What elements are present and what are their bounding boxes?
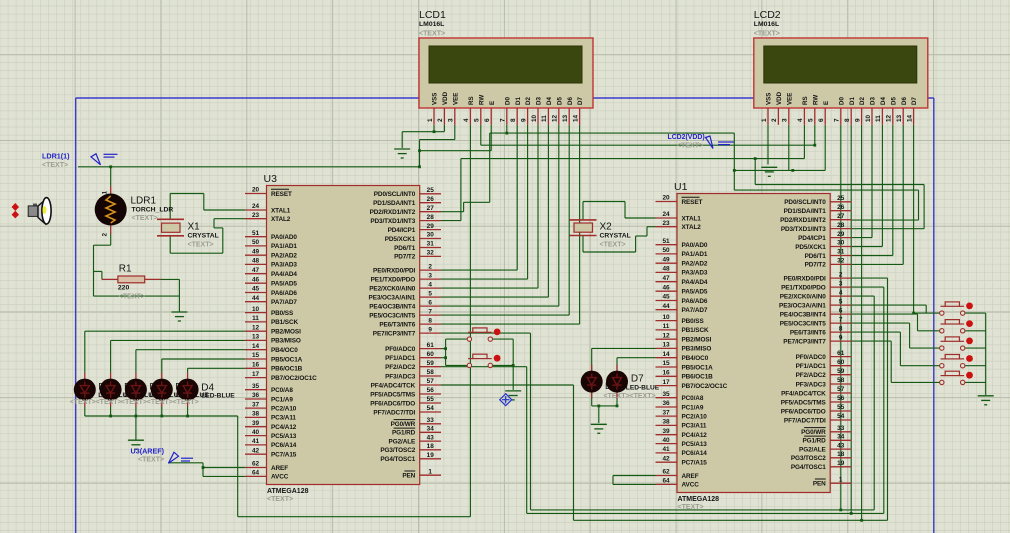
svg-text:PA2/AD2: PA2/AD2 bbox=[271, 253, 297, 260]
ground below LCD1 bbox=[394, 149, 410, 158]
svg-text:PC5/A13: PC5/A13 bbox=[682, 441, 708, 448]
svg-text:PC7/A15: PC7/A15 bbox=[271, 452, 297, 459]
svg-text:PE4/OC3B/INT4: PE4/OC3B/INT4 bbox=[780, 311, 826, 318]
LCD1 pin stubs bbox=[434, 108, 580, 125]
svg-text:35: 35 bbox=[662, 391, 670, 398]
svg-text:AVCC: AVCC bbox=[682, 482, 700, 489]
svg-text:42: 42 bbox=[252, 447, 260, 454]
svg-text:14: 14 bbox=[662, 351, 670, 358]
svg-text:RS: RS bbox=[802, 96, 809, 105]
svg-text:PF2/ADC2: PF2/ADC2 bbox=[385, 364, 416, 371]
svg-text:PE2/XCK0/AIN0: PE2/XCK0/AIN0 bbox=[369, 285, 415, 292]
svg-text:PD6/T1: PD6/T1 bbox=[805, 253, 827, 260]
svg-text:ATMEGA128: ATMEGA128 bbox=[267, 488, 309, 495]
svg-text:VSS: VSS bbox=[432, 93, 439, 105]
U1 left pin names bbox=[682, 197, 728, 488]
svg-text:31: 31 bbox=[837, 249, 845, 256]
svg-text:<TEXT>: <TEXT> bbox=[119, 294, 145, 301]
svg-text:11: 11 bbox=[663, 323, 670, 330]
svg-text:1: 1 bbox=[839, 476, 843, 483]
svg-text:30: 30 bbox=[427, 232, 435, 239]
svg-text:27: 27 bbox=[837, 213, 845, 220]
svg-text:28: 28 bbox=[427, 214, 435, 221]
wire: X1 to U3 XTAL2 bbox=[214, 218, 245, 220]
svg-text:15: 15 bbox=[252, 352, 260, 359]
svg-text:TORCH_LDR: TORCH_LDR bbox=[132, 207, 174, 214]
wire: LED cathode bus bbox=[84, 406, 86, 416]
wire: U1 AREF AVCC stubs bbox=[613, 475, 656, 477]
U1 left pin numbers bbox=[662, 195, 670, 485]
svg-text:PC1/A9: PC1/A9 bbox=[682, 404, 704, 411]
svg-text:PG0/WR: PG0/WR bbox=[801, 429, 826, 436]
svg-text:54: 54 bbox=[427, 405, 435, 412]
wire: U3 PB4 to LED D2 anode bbox=[135, 350, 137, 373]
svg-text:61: 61 bbox=[427, 342, 435, 349]
svg-text:U1: U1 bbox=[674, 181, 688, 193]
wire: LCD2 D7 to button1 node bbox=[913, 125, 915, 313]
svg-text:PD3/TXD1/INT3: PD3/TXD1/INT3 bbox=[370, 218, 415, 225]
svg-text:56: 56 bbox=[427, 387, 435, 394]
wire: LCD2 VSS to ground bbox=[767, 125, 769, 165]
svg-text:<TEXT>: <TEXT> bbox=[121, 399, 147, 406]
svg-text:PE1/TXD0/PDO: PE1/TXD0/PDO bbox=[781, 284, 826, 291]
svg-text:LM016L: LM016L bbox=[419, 21, 444, 28]
svg-text:PC1/A9: PC1/A9 bbox=[271, 396, 293, 403]
svg-text:13: 13 bbox=[662, 342, 670, 349]
svg-text:36: 36 bbox=[252, 392, 260, 399]
svg-text:VEE: VEE bbox=[452, 93, 459, 105]
crystal X2 bbox=[570, 220, 597, 236]
svg-text:PA0/AD0: PA0/AD0 bbox=[271, 234, 297, 241]
svg-text:25: 25 bbox=[837, 195, 845, 202]
svg-text:40: 40 bbox=[252, 429, 260, 436]
svg-text:D5: D5 bbox=[556, 97, 563, 105]
svg-text:D3: D3 bbox=[536, 97, 543, 105]
svg-text:55: 55 bbox=[837, 404, 845, 411]
svg-text:64: 64 bbox=[252, 470, 260, 477]
svg-text:6: 6 bbox=[484, 118, 491, 122]
wire: cross bus U3 PF4 to U1 PE0 bbox=[441, 384, 574, 386]
svg-text:220: 220 bbox=[118, 285, 130, 292]
svg-text:PA6/AD6: PA6/AD6 bbox=[682, 298, 708, 305]
wire: LCD1 RW to LCD2 RW long net bbox=[480, 125, 482, 145]
push button SW4 bbox=[940, 320, 973, 333]
svg-text:<TEXT>: <TEXT> bbox=[147, 399, 173, 406]
svg-text:64: 64 bbox=[662, 478, 670, 485]
svg-text:<TEXT>: <TEXT> bbox=[678, 504, 704, 511]
svg-text:PC0/A8: PC0/A8 bbox=[682, 395, 704, 402]
svg-text:40: 40 bbox=[662, 437, 670, 444]
svg-text:PE6/T3/INT6: PE6/T3/INT6 bbox=[790, 329, 826, 336]
svg-text:CRYSTAL: CRYSTAL bbox=[188, 233, 219, 240]
svg-text:41: 41 bbox=[252, 438, 260, 445]
svg-text:PG0/WR: PG0/WR bbox=[391, 421, 416, 428]
svg-text:7: 7 bbox=[428, 308, 432, 315]
svg-text:PF1/ADC1: PF1/ADC1 bbox=[796, 363, 827, 370]
wire: X2 to U1 XTAL1 bbox=[625, 217, 656, 219]
svg-text:23: 23 bbox=[252, 212, 260, 219]
svg-text:41: 41 bbox=[662, 446, 670, 453]
svg-text:PB5/OC1A: PB5/OC1A bbox=[271, 356, 303, 363]
svg-text:PB5/OC1A: PB5/OC1A bbox=[682, 364, 714, 371]
push button SW3 bbox=[940, 302, 973, 315]
svg-text:4: 4 bbox=[428, 281, 432, 288]
svg-text:37: 37 bbox=[662, 409, 670, 416]
svg-text:2: 2 bbox=[839, 271, 843, 278]
svg-text:12: 12 bbox=[552, 114, 559, 122]
svg-text:PG1/RD: PG1/RD bbox=[802, 438, 826, 445]
svg-text:29: 29 bbox=[427, 223, 435, 230]
svg-text:VDD: VDD bbox=[776, 91, 783, 105]
svg-text:PB7/OC2/OC1C: PB7/OC2/OC1C bbox=[682, 383, 728, 390]
svg-text:3: 3 bbox=[839, 280, 843, 287]
svg-text:D7: D7 bbox=[631, 374, 644, 385]
svg-text:10: 10 bbox=[662, 314, 670, 321]
svg-text:18: 18 bbox=[427, 443, 435, 450]
svg-text:9: 9 bbox=[428, 326, 432, 333]
svg-text:PF4/ADC4/TCK: PF4/ADC4/TCK bbox=[781, 390, 826, 397]
svg-text:PE3/OC3A/AIN1: PE3/OC3A/AIN1 bbox=[779, 302, 826, 309]
U1 left pin stubs bbox=[656, 202, 852, 485]
svg-text:36: 36 bbox=[662, 400, 670, 407]
svg-text:U3(AREF): U3(AREF) bbox=[131, 447, 165, 456]
LCD display LCD2 LM016L body bbox=[754, 38, 928, 108]
svg-text:23: 23 bbox=[662, 220, 670, 227]
wire: U3 PF0/PF1 to middle buttons bbox=[441, 348, 446, 350]
wire: LCD2 D2 to bottom bus bbox=[861, 125, 863, 520]
svg-text:RS: RS bbox=[468, 96, 475, 105]
ground for left LED bus bbox=[128, 440, 144, 449]
svg-text:PE1/TXD0/PDO: PE1/TXD0/PDO bbox=[371, 276, 416, 283]
svg-text:PA1/AD1: PA1/AD1 bbox=[682, 251, 708, 258]
svg-text:13: 13 bbox=[252, 334, 260, 341]
wire: cross bus U3 PE7 to U1 PE2 bbox=[441, 332, 531, 334]
svg-text:4: 4 bbox=[797, 118, 804, 122]
svg-text:PB6/OC1B: PB6/OC1B bbox=[271, 366, 303, 373]
svg-text:E: E bbox=[823, 101, 830, 105]
svg-text:RESET: RESET bbox=[271, 191, 292, 198]
svg-text:4: 4 bbox=[839, 289, 843, 296]
svg-text:<TEXT>: <TEXT> bbox=[42, 162, 68, 169]
svg-text:59: 59 bbox=[427, 360, 435, 367]
svg-text:PA3/AD3: PA3/AD3 bbox=[271, 262, 297, 269]
svg-text:<TEXT>: <TEXT> bbox=[138, 457, 164, 464]
svg-text:29: 29 bbox=[837, 231, 845, 238]
svg-text:59: 59 bbox=[837, 368, 845, 375]
wire: LED bus stem to ground bbox=[135, 416, 137, 440]
LCD2 pin stubs bbox=[768, 108, 914, 125]
svg-text:XTAL2: XTAL2 bbox=[271, 216, 291, 223]
svg-text:PB3/MISO: PB3/MISO bbox=[682, 346, 712, 353]
svg-text:PB2/MOSI: PB2/MOSI bbox=[271, 329, 301, 336]
red marker dot 1 bbox=[12, 203, 19, 211]
svg-text:46: 46 bbox=[252, 276, 260, 283]
svg-text:PC3/A11: PC3/A11 bbox=[682, 423, 707, 430]
svg-text:3: 3 bbox=[782, 118, 789, 122]
svg-text:25: 25 bbox=[427, 187, 435, 194]
U3 left pin stubs bbox=[245, 194, 441, 477]
svg-text:55: 55 bbox=[427, 396, 435, 403]
wire: LCD2 VEE tap bbox=[788, 125, 790, 170]
svg-text:24: 24 bbox=[252, 203, 260, 210]
left LED row partial labels bbox=[98, 382, 209, 400]
svg-text:<TEXT>: <TEXT> bbox=[419, 31, 445, 38]
svg-text:PC6/A14: PC6/A14 bbox=[682, 450, 708, 457]
svg-text:10: 10 bbox=[865, 114, 872, 122]
push button SW1 bbox=[467, 328, 500, 341]
svg-text:44: 44 bbox=[662, 303, 670, 310]
svg-text:PE7/ICP3/INT7: PE7/ICP3/INT7 bbox=[373, 330, 416, 337]
svg-text:PE5/OC3C/INT5: PE5/OC3C/INT5 bbox=[369, 312, 415, 319]
svg-text:1: 1 bbox=[427, 118, 434, 122]
wire: U3 AREF/AVCC probe node bbox=[168, 462, 203, 464]
svg-text:PB3/MISO: PB3/MISO bbox=[271, 338, 301, 345]
svg-text:LED-BLUE: LED-BLUE bbox=[201, 393, 235, 400]
wire: U3 PD3 to U1 PD3 link bbox=[441, 220, 461, 222]
svg-text:<TEXT>: <TEXT> bbox=[70, 399, 96, 406]
svg-text:54: 54 bbox=[837, 413, 845, 420]
svg-text:20: 20 bbox=[252, 187, 260, 194]
svg-text:27: 27 bbox=[427, 205, 435, 212]
svg-text:38: 38 bbox=[662, 419, 670, 426]
svg-text:33: 33 bbox=[837, 425, 845, 432]
svg-text:XTAL1: XTAL1 bbox=[271, 207, 291, 214]
svg-text:34: 34 bbox=[427, 426, 435, 433]
svg-text:PB0/SS: PB0/SS bbox=[682, 318, 705, 325]
svg-text:PD4/ICP1: PD4/ICP1 bbox=[798, 235, 826, 242]
resistor R1 220 bbox=[102, 276, 161, 283]
wire: X2 to U1 XTAL2 bbox=[647, 226, 656, 228]
svg-text:11: 11 bbox=[541, 115, 548, 122]
svg-text:PA4/AD4: PA4/AD4 bbox=[271, 271, 297, 278]
LCD2 pin names bbox=[766, 91, 919, 105]
svg-text:VSS: VSS bbox=[766, 93, 773, 105]
svg-text:8: 8 bbox=[510, 118, 517, 122]
svg-text:1: 1 bbox=[761, 118, 768, 122]
svg-text:49: 49 bbox=[252, 248, 260, 255]
svg-text:9: 9 bbox=[854, 118, 861, 122]
wire: X1 to U3 XTAL1 bbox=[169, 194, 171, 220]
svg-text:PF5/ADC5/TMS: PF5/ADC5/TMS bbox=[781, 399, 827, 406]
svg-text:26: 26 bbox=[837, 204, 845, 211]
svg-text:PF4/ADC4/TCK: PF4/ADC4/TCK bbox=[371, 382, 416, 389]
svg-text:PF6/ADC6/TDO: PF6/ADC6/TDO bbox=[781, 408, 826, 415]
svg-text:AREF: AREF bbox=[682, 473, 699, 480]
svg-text:PF0/ADC0: PF0/ADC0 bbox=[385, 346, 416, 353]
svg-text:30: 30 bbox=[837, 240, 845, 247]
svg-text:PG2/ALE: PG2/ALE bbox=[389, 438, 416, 445]
svg-text:D6: D6 bbox=[567, 97, 574, 105]
svg-text:<TEXT>: <TEXT> bbox=[173, 399, 199, 406]
svg-text:PB6/OC1B: PB6/OC1B bbox=[682, 374, 714, 381]
svg-text:PA0/AD0: PA0/AD0 bbox=[682, 242, 708, 249]
svg-text:1: 1 bbox=[428, 468, 432, 475]
svg-text:7: 7 bbox=[500, 118, 507, 122]
microcontroller U3 ATMEGA128 body bbox=[267, 186, 420, 485]
svg-text:37: 37 bbox=[252, 401, 260, 408]
svg-text:49: 49 bbox=[662, 256, 670, 263]
svg-text:PF3/ADC3: PF3/ADC3 bbox=[385, 373, 416, 380]
svg-text:PD2/RXD1/INT2: PD2/RXD1/INT2 bbox=[780, 217, 826, 224]
svg-text:D3: D3 bbox=[870, 97, 877, 105]
svg-text:PG4/TOSC1: PG4/TOSC1 bbox=[791, 464, 826, 471]
svg-text:PA7/AD7: PA7/AD7 bbox=[271, 299, 297, 306]
speaker icon bbox=[28, 198, 51, 224]
LCD1 pin numbers 1-14 bbox=[427, 114, 580, 122]
svg-text:56: 56 bbox=[837, 395, 845, 402]
LED D7 blue bbox=[606, 365, 628, 399]
svg-text:<TEXT>: <TEXT> bbox=[600, 242, 626, 249]
U1 right pin numbers bbox=[837, 195, 845, 483]
blue selection border top edge bbox=[76, 97, 934, 99]
svg-text:LED-BLUE: LED-BLUE bbox=[626, 385, 660, 392]
left LED TEXT placeholders bbox=[70, 399, 199, 406]
svg-text:PF6/ADC6/TDO: PF6/ADC6/TDO bbox=[370, 400, 415, 407]
svg-text:PE5/OC3C/INT5: PE5/OC3C/INT5 bbox=[780, 320, 826, 327]
blue selection border left edge bbox=[75, 98, 77, 533]
svg-text:PB0/SS: PB0/SS bbox=[271, 310, 294, 317]
wire: U3 PB6 to LED D4 anode bbox=[187, 368, 189, 373]
svg-text:PE7/ICP3/INT7: PE7/ICP3/INT7 bbox=[783, 338, 826, 345]
svg-text:LCD2: LCD2 bbox=[754, 9, 781, 21]
svg-text:PD1/SDA/INT1: PD1/SDA/INT1 bbox=[373, 200, 416, 207]
push button SW7 bbox=[940, 371, 973, 384]
voltage probe LCD2(VDD) bbox=[706, 136, 735, 149]
svg-text:<TEXT>: <TEXT> bbox=[604, 393, 630, 400]
svg-text:17: 17 bbox=[662, 379, 670, 386]
svg-text:PA2/AD2: PA2/AD2 bbox=[682, 261, 708, 268]
svg-text:32: 32 bbox=[837, 258, 845, 265]
svg-text:PC4/A12: PC4/A12 bbox=[271, 424, 297, 431]
svg-text:D1: D1 bbox=[515, 97, 522, 105]
wire: D7 LEDs anodes to U1 PB3/PB4 bbox=[591, 348, 593, 370]
svg-text:PE2/XCK0/AIN0: PE2/XCK0/AIN0 bbox=[780, 293, 826, 300]
svg-text:15: 15 bbox=[662, 360, 670, 367]
svg-text:31: 31 bbox=[427, 241, 435, 248]
voltage probe LDR1(1) bbox=[91, 154, 118, 165]
svg-text:PE3/OC3A/AIN1: PE3/OC3A/AIN1 bbox=[369, 294, 416, 301]
svg-text:ATMEGA128: ATMEGA128 bbox=[678, 496, 720, 503]
crystal X1 bbox=[157, 219, 184, 236]
svg-text:48: 48 bbox=[662, 266, 670, 273]
svg-text:D2: D2 bbox=[525, 97, 532, 105]
svg-text:58: 58 bbox=[837, 377, 845, 384]
svg-text:2: 2 bbox=[437, 118, 444, 122]
svg-text:PD7/T2: PD7/T2 bbox=[394, 254, 416, 261]
svg-text:E: E bbox=[489, 101, 496, 105]
svg-text:PF1/ADC1: PF1/ADC1 bbox=[385, 355, 416, 362]
svg-text:PG2/ALE: PG2/ALE bbox=[799, 446, 826, 453]
ground for right buttons bbox=[978, 396, 994, 405]
svg-text:2: 2 bbox=[771, 118, 778, 122]
svg-text:PE4/OC3B/INT4: PE4/OC3B/INT4 bbox=[369, 303, 415, 310]
svg-text:VEE: VEE bbox=[786, 93, 793, 105]
wire: LCD1 D0 to serial link net bbox=[506, 125, 508, 133]
wire: U3 PD2 to U1 PD2 serial link bbox=[441, 211, 464, 213]
svg-text:RESET: RESET bbox=[682, 199, 703, 206]
svg-text:<TEXT>: <TEXT> bbox=[188, 242, 214, 249]
svg-text:47: 47 bbox=[662, 275, 670, 282]
svg-text:PD5/XCK1: PD5/XCK1 bbox=[795, 244, 826, 251]
svg-text:8: 8 bbox=[428, 317, 432, 324]
LED D5 blue bbox=[581, 365, 603, 399]
svg-text:45: 45 bbox=[662, 294, 670, 301]
svg-text:PD0/SCL/INT0: PD0/SCL/INT0 bbox=[784, 199, 826, 206]
svg-text:PA5/AD5: PA5/AD5 bbox=[271, 281, 297, 288]
svg-text:12: 12 bbox=[886, 114, 893, 122]
LCD display LCD1 LM016L body bbox=[419, 38, 593, 108]
svg-text:<TEXT>: <TEXT> bbox=[754, 31, 780, 38]
svg-text:PA4/AD4: PA4/AD4 bbox=[682, 279, 708, 286]
svg-text:PF2/ADC2: PF2/ADC2 bbox=[796, 372, 827, 379]
svg-text:PG4/TOSC1: PG4/TOSC1 bbox=[380, 456, 415, 463]
svg-text:28: 28 bbox=[837, 222, 845, 229]
svg-text:61: 61 bbox=[837, 350, 845, 357]
wire: bottom bus to LCD1 RS bbox=[238, 516, 471, 518]
LED D1 blue bbox=[100, 373, 122, 407]
svg-text:24: 24 bbox=[662, 211, 670, 218]
svg-text:2: 2 bbox=[428, 263, 432, 270]
svg-text:PG3/TOSC2: PG3/TOSC2 bbox=[791, 455, 826, 462]
svg-text:51: 51 bbox=[252, 230, 260, 237]
svg-text:13: 13 bbox=[896, 114, 903, 122]
svg-text:PG1/RD: PG1/RD bbox=[392, 430, 416, 437]
wire: D7 LEDs cathode bus to ground bbox=[591, 393, 593, 406]
svg-text:<TEXT>: <TEXT> bbox=[96, 399, 122, 406]
wire: LCD2 D0 to bottom bus bbox=[840, 125, 842, 510]
voltage probe U3(AREF) bbox=[169, 452, 194, 463]
svg-text:48: 48 bbox=[252, 258, 260, 265]
svg-text:33: 33 bbox=[427, 417, 435, 424]
svg-text:LDR1: LDR1 bbox=[131, 196, 157, 207]
wire: LCD2 D1 to bottom bus bbox=[850, 125, 852, 514]
U1 right pin names bbox=[779, 199, 826, 487]
red marker dot 2 bbox=[12, 211, 19, 219]
wire: right buttons common to ground bbox=[964, 312, 985, 314]
svg-text:PD1/SDA/INT1: PD1/SDA/INT1 bbox=[784, 208, 827, 215]
wire: U3 PB5 to LED D3 anode bbox=[161, 359, 163, 373]
svg-text:51: 51 bbox=[662, 238, 670, 245]
svg-text:PD0/SCL/INT0: PD0/SCL/INT0 bbox=[374, 191, 416, 198]
svg-text:D5: D5 bbox=[890, 97, 897, 105]
wire: LDR node horizontal to LCD1 VEE net bbox=[78, 166, 420, 168]
svg-text:39: 39 bbox=[252, 420, 260, 427]
U3 right pin numbers bbox=[427, 187, 435, 475]
svg-text:PC5/A13: PC5/A13 bbox=[271, 433, 297, 440]
wire: LCD1 VEE down bbox=[454, 125, 456, 140]
push button SW5 bbox=[940, 337, 973, 350]
ground for middle buttons bbox=[505, 391, 521, 400]
svg-text:50: 50 bbox=[252, 239, 260, 246]
svg-text:7: 7 bbox=[834, 118, 841, 122]
svg-text:AREF: AREF bbox=[271, 465, 288, 472]
svg-text:PB7/OC2/OC1C: PB7/OC2/OC1C bbox=[271, 375, 317, 382]
svg-text:43: 43 bbox=[837, 442, 845, 449]
svg-text:32: 32 bbox=[427, 250, 435, 257]
svg-text:PF7/ADC7/TDI: PF7/ADC7/TDI bbox=[784, 417, 826, 424]
U3 left pin names bbox=[271, 189, 317, 480]
svg-text:PF0/ADC0: PF0/ADC0 bbox=[796, 354, 827, 361]
svg-text:45: 45 bbox=[252, 286, 260, 293]
wire: U3 PB2 to LED D0 anode bbox=[84, 331, 86, 373]
svg-text:14: 14 bbox=[572, 114, 579, 122]
LED D0 blue bbox=[74, 373, 96, 407]
svg-text:D1: D1 bbox=[849, 97, 856, 105]
svg-text:PB1/SCK: PB1/SCK bbox=[682, 327, 709, 334]
U3 left pin numbers bbox=[252, 187, 260, 477]
svg-text:19: 19 bbox=[427, 452, 435, 459]
microcontroller U1 ATMEGA128 body bbox=[677, 194, 830, 493]
